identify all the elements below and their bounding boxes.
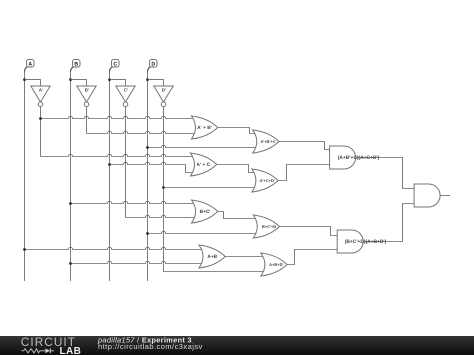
svg-text:C: C (113, 62, 117, 68)
svg-text:(A+B'+C)(A+C+D'): (A+B'+C)(A+C+D') (338, 155, 380, 161)
svg-text:A+B: A+B (207, 254, 217, 260)
svg-text:LAB: LAB (60, 346, 82, 355)
svg-text:A: A (28, 62, 32, 68)
svg-text:B+C'+D: B+C'+D (262, 224, 276, 229)
svg-text:D: D (151, 62, 155, 68)
svg-text:A'+C+D': A'+C+D' (260, 178, 275, 183)
svg-text:B+C': B+C' (200, 209, 211, 215)
svg-text:D': D' (162, 88, 166, 93)
svg-text:C': C' (124, 88, 128, 93)
svg-text:(B+C'+D)(A+B+D'): (B+C'+D)(A+B+D') (345, 239, 387, 245)
svg-text:B': B' (85, 88, 89, 93)
svg-text:A+B+D': A+B+D' (269, 262, 283, 267)
svg-text:http://circuitlab.com/c3xajsv: http://circuitlab.com/c3xajsv (98, 342, 203, 351)
svg-text:A'+B'+C: A'+B'+C (260, 139, 275, 144)
svg-text:A': A' (39, 88, 43, 93)
svg-text:A' + B': A' + B' (197, 125, 212, 131)
svg-text:A' + C: A' + C (197, 162, 211, 168)
svg-text:B: B (74, 62, 78, 68)
